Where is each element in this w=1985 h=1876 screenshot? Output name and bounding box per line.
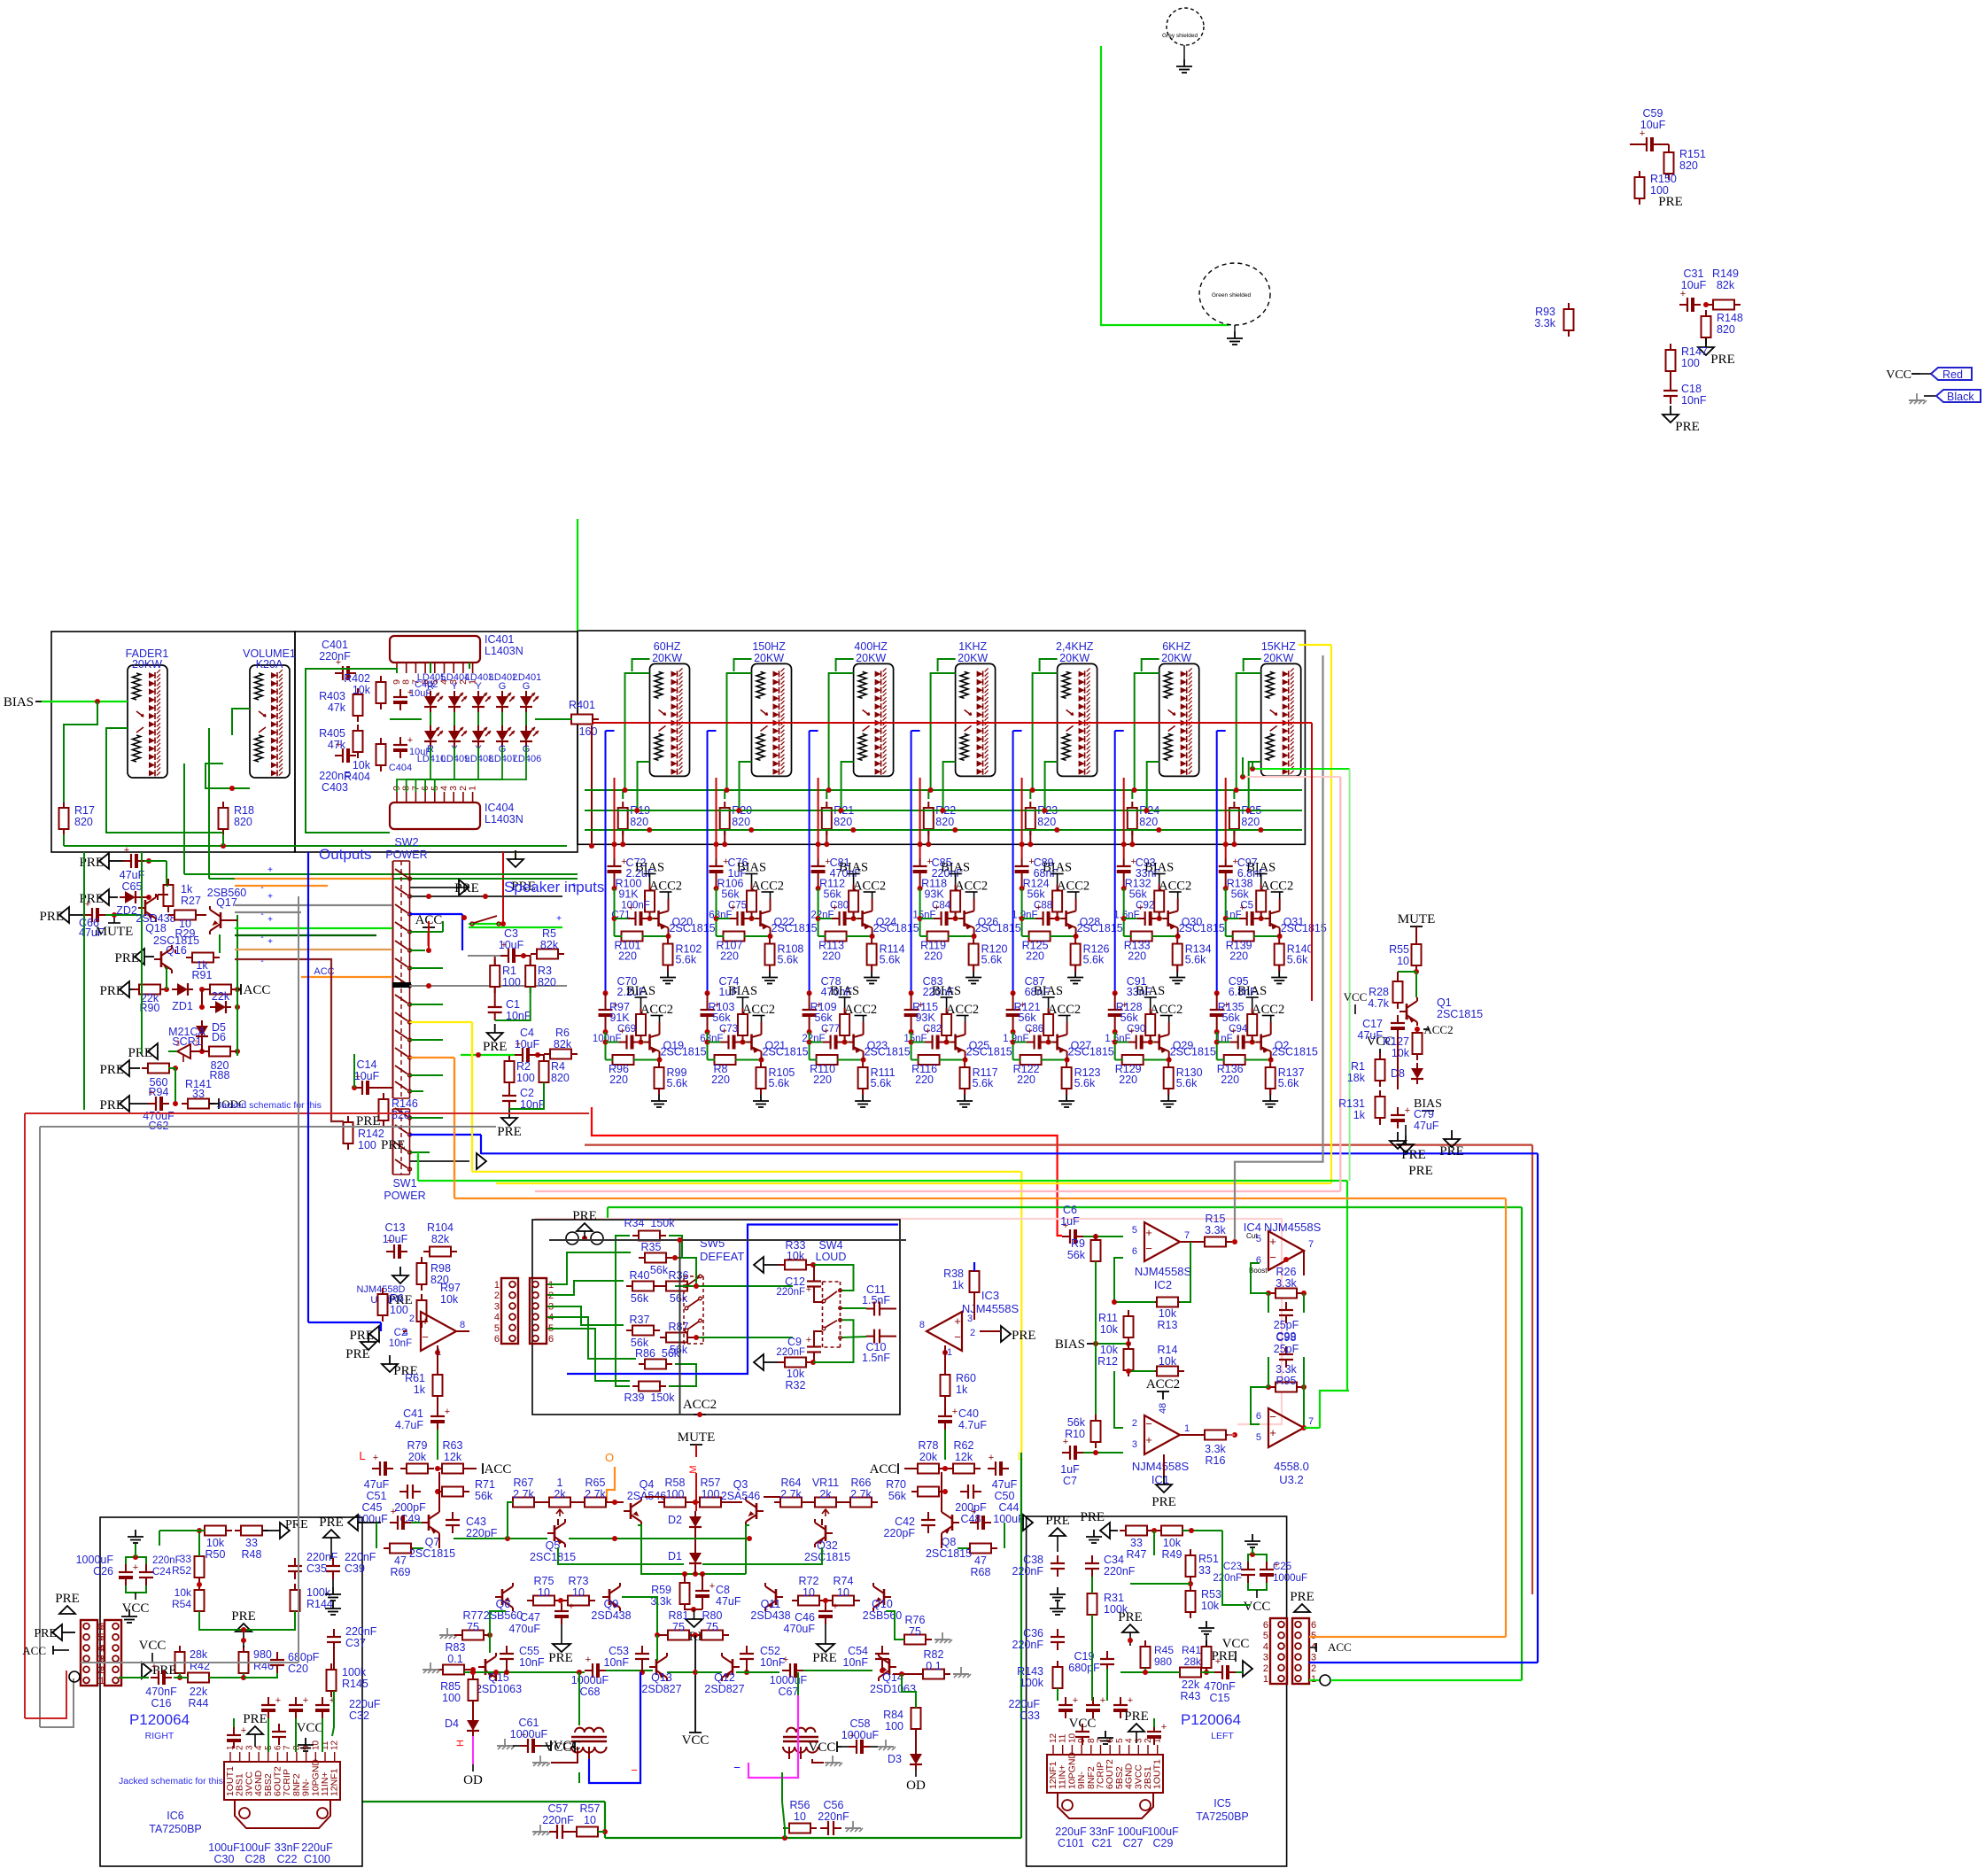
svg-text:C56: C56 — [824, 1799, 844, 1811]
svg-text:220: 220 — [915, 1074, 934, 1086]
svg-text:2SB560: 2SB560 — [863, 1609, 903, 1622]
svg-text:C39: C39 — [345, 1562, 365, 1575]
svg-text:PRE: PRE — [1080, 1510, 1105, 1524]
svg-text:C51: C51 — [367, 1490, 387, 1502]
svg-text:BIAS: BIAS — [1136, 984, 1165, 998]
svg-text:150HZ: 150HZ — [752, 640, 786, 653]
svg-text:C28: C28 — [245, 1853, 266, 1865]
svg-text:−: − — [954, 1330, 961, 1344]
svg-text:5: 5 — [1115, 1738, 1125, 1743]
svg-text:4: 4 — [97, 1643, 103, 1654]
svg-text:+: + — [268, 892, 273, 902]
svg-text:LOUD: LOUD — [816, 1251, 847, 1263]
svg-text:R401: R401 — [569, 699, 595, 711]
svg-text:+: + — [1230, 1027, 1236, 1037]
svg-text:Black: Black — [1947, 391, 1974, 403]
svg-text:C61: C61 — [519, 1717, 539, 1729]
svg-text:R35: R35 — [641, 1241, 662, 1253]
svg-text:220: 220 — [618, 950, 637, 963]
svg-text:IC404: IC404 — [485, 802, 514, 814]
svg-text:5.6k: 5.6k — [778, 954, 799, 966]
svg-text:OD: OD — [906, 1779, 926, 1793]
svg-text:C65: C65 — [122, 880, 143, 893]
svg-text:R36: R36 — [669, 1269, 689, 1282]
svg-text:220: 220 — [1128, 950, 1146, 963]
svg-text:R27: R27 — [181, 895, 201, 907]
svg-text:220: 220 — [1119, 1074, 1137, 1086]
svg-text:1: 1 — [468, 786, 478, 791]
svg-text:10k: 10k — [353, 684, 371, 696]
svg-text:+: + — [721, 1027, 726, 1037]
svg-text:+: + — [1073, 1695, 1078, 1706]
svg-text:220nF: 220nF — [1012, 1565, 1044, 1578]
svg-text:R50: R50 — [205, 1548, 226, 1561]
svg-text:100uF: 100uF — [208, 1841, 240, 1854]
svg-text:75: 75 — [909, 1625, 921, 1638]
svg-text:VCC: VCC — [1069, 1717, 1097, 1731]
svg-text:R91: R91 — [192, 969, 213, 981]
svg-text:+: + — [556, 914, 562, 924]
svg-text:10k: 10k — [1100, 1344, 1119, 1356]
svg-text:Q8: Q8 — [942, 1536, 957, 1548]
svg-text:56k: 56k — [824, 888, 842, 901]
svg-text:820: 820 — [538, 976, 556, 988]
svg-text:PRE: PRE — [1658, 195, 1683, 209]
svg-text:LD401: LD401 — [513, 672, 541, 683]
svg-text:+: + — [971, 1507, 976, 1517]
svg-text:220nF: 220nF — [776, 1347, 805, 1358]
svg-text:820: 820 — [1037, 816, 1056, 828]
svg-text:BIAS: BIAS — [830, 984, 859, 998]
svg-text:10: 10 — [1067, 1733, 1077, 1743]
svg-text:33: 33 — [245, 1537, 258, 1549]
svg-text:R41: R41 — [1182, 1644, 1201, 1656]
svg-text:R62: R62 — [954, 1439, 974, 1452]
svg-text:20KW: 20KW — [132, 658, 162, 671]
svg-text:1uF: 1uF — [1060, 1215, 1080, 1228]
svg-text:C27: C27 — [1123, 1837, 1144, 1849]
svg-text:R13: R13 — [1158, 1319, 1178, 1331]
svg-text:PRE: PRE — [285, 1518, 308, 1531]
svg-text:C401: C401 — [322, 639, 348, 651]
svg-text:D1: D1 — [668, 1550, 682, 1562]
svg-text:R17: R17 — [74, 804, 95, 817]
svg-text:R60: R60 — [956, 1372, 976, 1384]
svg-text:C53: C53 — [609, 1645, 629, 1657]
svg-text:−: − — [1145, 1417, 1152, 1430]
svg-text:PRE: PRE — [1012, 1329, 1036, 1343]
svg-text:10k: 10k — [1159, 1307, 1177, 1320]
svg-text:R1: R1 — [1351, 1060, 1365, 1073]
svg-text:C403: C403 — [322, 781, 348, 794]
svg-text:PRE: PRE — [812, 1651, 837, 1665]
svg-text:PRE: PRE — [1439, 1144, 1464, 1159]
svg-text:R69: R69 — [391, 1566, 411, 1578]
svg-text:C7: C7 — [1063, 1475, 1077, 1487]
svg-text:R52: R52 — [172, 1564, 191, 1577]
svg-text:D6: D6 — [212, 1031, 226, 1043]
svg-text:+: + — [1137, 903, 1143, 913]
svg-text:R1: R1 — [502, 965, 516, 977]
svg-text:Q7: Q7 — [425, 1536, 440, 1548]
svg-text:+: + — [823, 1027, 828, 1037]
svg-text:-: - — [260, 910, 263, 919]
svg-text:C44: C44 — [999, 1501, 1020, 1514]
svg-text:+: + — [934, 903, 939, 913]
svg-text:47: 47 — [974, 1554, 987, 1567]
svg-text:C68: C68 — [580, 1686, 601, 1698]
svg-text:820: 820 — [392, 1109, 410, 1121]
svg-text:2: 2 — [970, 1328, 975, 1338]
svg-text:7: 7 — [1308, 1239, 1314, 1250]
svg-text:20KW: 20KW — [652, 652, 682, 664]
svg-text:220pF: 220pF — [466, 1527, 498, 1539]
svg-text:−: − — [1145, 1242, 1152, 1255]
svg-text:820: 820 — [732, 816, 750, 828]
svg-text:PRE: PRE — [1408, 1164, 1433, 1178]
svg-text:10uF: 10uF — [1681, 279, 1707, 291]
svg-text:−: − — [1269, 1251, 1276, 1264]
svg-text:C16: C16 — [151, 1697, 172, 1709]
svg-text:12: 12 — [330, 1740, 340, 1750]
svg-text:100: 100 — [516, 1072, 535, 1084]
svg-text:56k: 56k — [888, 1490, 907, 1502]
svg-text:100: 100 — [702, 1488, 720, 1500]
svg-text:C404: C404 — [389, 763, 412, 773]
svg-text:PRE: PRE — [79, 856, 104, 870]
svg-text:TA7250BP: TA7250BP — [149, 1823, 202, 1835]
svg-text:C46: C46 — [795, 1611, 815, 1624]
svg-text:ACC: ACC — [244, 983, 271, 997]
svg-text:2SD827: 2SD827 — [641, 1683, 681, 1695]
svg-text:R95: R95 — [1276, 1375, 1297, 1387]
svg-text:6: 6 — [548, 1334, 554, 1345]
svg-text:Q11: Q11 — [761, 1598, 781, 1610]
svg-text:R51: R51 — [1198, 1553, 1219, 1565]
svg-text:MUTE: MUTE — [96, 925, 134, 939]
svg-text:20KW: 20KW — [856, 652, 886, 664]
svg-text:PRE: PRE — [349, 1329, 374, 1343]
svg-text:R44: R44 — [189, 1697, 209, 1709]
svg-text:1: 1 — [494, 1280, 500, 1291]
svg-text:NJM4558S: NJM4558S — [1264, 1221, 1322, 1234]
svg-text:47k: 47k — [328, 739, 346, 751]
svg-text:R12: R12 — [1097, 1355, 1118, 1368]
svg-text:5: 5 — [1256, 1432, 1261, 1443]
svg-text:2SD438: 2SD438 — [591, 1609, 631, 1622]
svg-text:10k: 10k — [1159, 1355, 1177, 1368]
svg-text:220nF: 220nF — [345, 1551, 376, 1563]
svg-text:220: 220 — [1017, 1074, 1035, 1086]
svg-text:220uF: 220uF — [1009, 1698, 1041, 1710]
svg-text:R97: R97 — [440, 1282, 461, 1294]
svg-text:+: + — [149, 1088, 154, 1098]
svg-text:VCC: VCC — [682, 1733, 709, 1748]
svg-text:56k: 56k — [1231, 888, 1250, 901]
svg-text:M: M — [688, 1465, 699, 1473]
svg-text:POWER: POWER — [384, 1190, 425, 1202]
svg-text:R104: R104 — [427, 1221, 454, 1234]
svg-text:220: 220 — [822, 950, 841, 963]
svg-text:Red: Red — [1942, 368, 1963, 381]
svg-text:+: + — [1405, 1013, 1410, 1024]
svg-text:−: − — [733, 1761, 740, 1774]
svg-text:BIAS: BIAS — [1144, 861, 1174, 875]
svg-text:2: 2 — [1144, 1738, 1153, 1743]
svg-text:R66: R66 — [851, 1477, 872, 1489]
svg-text:10nF: 10nF — [389, 1338, 412, 1349]
svg-text:2: 2 — [236, 1745, 245, 1750]
svg-text:PRE: PRE — [548, 1651, 573, 1665]
svg-text:R31: R31 — [1104, 1592, 1124, 1604]
svg-text:ACC2: ACC2 — [1146, 1377, 1180, 1391]
svg-text:+: + — [1100, 1695, 1105, 1706]
svg-text:C38: C38 — [1023, 1554, 1043, 1566]
svg-text:R88: R88 — [210, 1069, 230, 1081]
svg-text:BIAS: BIAS — [1246, 861, 1276, 875]
svg-text:+: + — [1128, 1027, 1134, 1037]
svg-text:R59: R59 — [651, 1584, 671, 1596]
svg-text:PRE: PRE — [381, 1138, 406, 1152]
svg-text:C35: C35 — [306, 1562, 327, 1575]
svg-text:ACC: ACC — [485, 1462, 512, 1477]
svg-text:+: + — [1063, 1437, 1068, 1447]
svg-text:R47: R47 — [1127, 1548, 1147, 1561]
svg-text:91K: 91K — [618, 888, 639, 901]
svg-text:PRE: PRE — [1045, 1514, 1070, 1528]
svg-text:8: 8 — [292, 1745, 302, 1750]
svg-text:R45: R45 — [1154, 1644, 1174, 1656]
svg-text:6: 6 — [1256, 1255, 1261, 1266]
svg-text:11: 11 — [1058, 1733, 1068, 1743]
svg-text:33: 33 — [180, 1553, 192, 1565]
svg-text:VCC: VCC — [139, 1639, 167, 1653]
svg-text:7: 7 — [1184, 1230, 1190, 1241]
svg-text:L1403N: L1403N — [485, 813, 523, 826]
svg-text:+: + — [422, 1314, 429, 1328]
svg-text:C1: C1 — [506, 998, 520, 1011]
svg-text:ACC: ACC — [22, 1644, 46, 1657]
svg-text:+: + — [954, 1314, 961, 1328]
svg-text:100: 100 — [358, 1139, 376, 1151]
svg-text:2: 2 — [1132, 1418, 1137, 1429]
svg-text:10uF: 10uF — [383, 1233, 408, 1245]
svg-text:5: 5 — [494, 1323, 500, 1334]
svg-text:10k: 10k — [174, 1586, 192, 1599]
svg-text:5.6k: 5.6k — [871, 1077, 892, 1089]
svg-text:220nF: 220nF — [1104, 1565, 1136, 1578]
svg-text:SW4: SW4 — [818, 1239, 842, 1252]
svg-text:BIAS: BIAS — [635, 861, 664, 875]
svg-text:VCC: VCC — [297, 1721, 324, 1735]
svg-text:D2: D2 — [668, 1514, 682, 1526]
svg-text:10nF: 10nF — [519, 1656, 545, 1669]
svg-text:Speaker inputs: Speaker inputs — [504, 879, 604, 895]
svg-text:PRE: PRE — [55, 1592, 80, 1606]
svg-text:1KHZ: 1KHZ — [958, 640, 987, 653]
svg-text:VCC: VCC — [1886, 368, 1911, 382]
svg-text:ACC2: ACC2 — [683, 1398, 717, 1412]
svg-text:R72: R72 — [799, 1575, 819, 1587]
svg-text:R76: R76 — [905, 1614, 926, 1626]
svg-text:R68: R68 — [971, 1566, 991, 1578]
svg-text:5.6k: 5.6k — [1083, 954, 1105, 966]
svg-text:2SC1815: 2SC1815 — [772, 922, 818, 934]
svg-text:1000uF: 1000uF — [1273, 1573, 1307, 1584]
svg-text:1: 1 — [1184, 1423, 1190, 1434]
svg-text:R18: R18 — [234, 804, 254, 817]
svg-text:K20A: K20A — [256, 658, 283, 671]
svg-text:D4: D4 — [445, 1717, 459, 1730]
svg-text:ACC2: ACC2 — [1423, 1023, 1453, 1036]
svg-text:ACC: ACC — [870, 1462, 897, 1477]
svg-text:POWER: POWER — [385, 849, 427, 861]
svg-text:PRE: PRE — [1211, 1649, 1236, 1663]
svg-text:SW2: SW2 — [394, 836, 418, 849]
svg-text:R86 56k: R86 56k — [635, 1347, 680, 1360]
svg-text:7: 7 — [1097, 1738, 1106, 1743]
svg-text:+: + — [1027, 1027, 1032, 1037]
svg-text:R127: R127 — [1383, 1035, 1409, 1048]
svg-text:3: 3 — [1263, 1653, 1268, 1663]
svg-text:5.6k: 5.6k — [973, 1077, 994, 1089]
svg-text:PRE: PRE — [497, 1125, 522, 1139]
svg-text:1: 1 — [1153, 1738, 1163, 1743]
svg-text:56k: 56k — [631, 1292, 649, 1305]
svg-text:1k: 1k — [181, 883, 193, 895]
svg-text:100: 100 — [502, 976, 521, 988]
svg-text:C15: C15 — [1210, 1692, 1230, 1704]
svg-text:5.6k: 5.6k — [1074, 1077, 1096, 1089]
svg-text:100uF: 100uF — [993, 1513, 1025, 1525]
svg-text:20k: 20k — [408, 1451, 427, 1463]
svg-text:IC4: IC4 — [1244, 1221, 1261, 1234]
svg-text:R70: R70 — [886, 1478, 906, 1491]
svg-text:R34 150k: R34 150k — [624, 1217, 676, 1229]
svg-text:10k: 10k — [1201, 1600, 1220, 1612]
svg-text:1.5nF: 1.5nF — [862, 1352, 890, 1364]
svg-text:U3.2: U3.2 — [1279, 1473, 1303, 1486]
svg-text:R403: R403 — [319, 690, 345, 702]
svg-text:2SC1815: 2SC1815 — [966, 1046, 1012, 1058]
svg-text:8: 8 — [919, 1320, 925, 1330]
svg-text:C30: C30 — [214, 1853, 235, 1865]
svg-text:IC401: IC401 — [485, 633, 514, 646]
svg-text:C36: C36 — [1023, 1627, 1043, 1640]
svg-text:R56: R56 — [790, 1799, 810, 1811]
svg-text:C21: C21 — [1092, 1837, 1113, 1849]
svg-text:3: 3 — [1311, 1653, 1316, 1663]
svg-text:2SD1063: 2SD1063 — [870, 1683, 916, 1695]
svg-text:220uF: 220uF — [301, 1841, 333, 1854]
svg-text:220nF: 220nF — [319, 650, 351, 663]
svg-text:R32: R32 — [786, 1379, 806, 1391]
svg-text:BIAS: BIAS — [626, 984, 655, 998]
svg-text:C45: C45 — [362, 1501, 383, 1514]
svg-text:2: 2 — [409, 1314, 415, 1324]
svg-text:C18: C18 — [1681, 383, 1702, 395]
svg-text:C101: C101 — [1058, 1837, 1084, 1849]
svg-text:+: + — [1269, 1426, 1276, 1439]
svg-text:+: + — [1035, 903, 1041, 913]
svg-text:10k: 10k — [440, 1293, 459, 1306]
svg-text:100k: 100k — [1020, 1677, 1044, 1689]
svg-text:47k: 47k — [328, 702, 346, 714]
svg-text:160: 160 — [579, 725, 598, 738]
svg-text:2SC1815: 2SC1815 — [1437, 1008, 1483, 1020]
svg-text:BIAS: BIAS — [1237, 984, 1267, 998]
svg-text:820: 820 — [74, 816, 93, 828]
svg-text:220: 220 — [609, 1074, 628, 1086]
svg-text:1uF: 1uF — [1060, 1463, 1080, 1476]
svg-text:2SC1815: 2SC1815 — [804, 1551, 850, 1563]
svg-text:10: 10 — [837, 1586, 849, 1599]
svg-text:OD: OD — [463, 1773, 483, 1787]
svg-text:10nF: 10nF — [604, 1656, 630, 1669]
svg-text:C42: C42 — [895, 1516, 915, 1528]
svg-text:100: 100 — [390, 1304, 408, 1316]
svg-text:+: + — [925, 1027, 930, 1037]
svg-text:2SC1815: 2SC1815 — [530, 1551, 576, 1563]
svg-text:R39 150k: R39 150k — [624, 1391, 676, 1404]
svg-text:+: + — [133, 1562, 138, 1573]
svg-text:R75: R75 — [534, 1575, 554, 1587]
svg-text:+: + — [989, 1453, 994, 1463]
svg-text:5: 5 — [1132, 1225, 1137, 1236]
svg-text:33: 33 — [1130, 1537, 1143, 1549]
svg-text:C14: C14 — [357, 1058, 377, 1071]
svg-text:DEFEAT: DEFEAT — [700, 1250, 744, 1263]
svg-text:8: 8 — [1087, 1738, 1097, 1743]
svg-text:2SC1815: 2SC1815 — [926, 1547, 972, 1560]
svg-text:PRE: PRE — [79, 892, 104, 906]
svg-text:-: - — [260, 957, 263, 966]
svg-text:+: + — [445, 1407, 450, 1417]
svg-text:BIAS: BIAS — [941, 861, 970, 875]
svg-text:R67: R67 — [514, 1477, 534, 1489]
svg-text:820: 820 — [630, 816, 648, 828]
svg-text:1000uF: 1000uF — [841, 1729, 880, 1741]
svg-text:25pF: 25pF — [1274, 1319, 1299, 1331]
svg-text:-: - — [260, 933, 263, 942]
svg-text:L: L — [359, 1449, 365, 1462]
svg-text:820: 820 — [935, 816, 954, 828]
svg-text:PRE: PRE — [319, 1516, 344, 1530]
svg-text:10k: 10k — [787, 1368, 805, 1380]
svg-text:+: + — [628, 903, 633, 913]
svg-text:20KW: 20KW — [958, 652, 988, 664]
svg-text:100: 100 — [666, 1488, 685, 1500]
svg-text:22k: 22k — [1182, 1678, 1200, 1691]
svg-text:22k: 22k — [212, 990, 230, 1003]
svg-text:91K: 91K — [609, 1012, 630, 1024]
svg-text:C37: C37 — [345, 1637, 366, 1649]
svg-text:+: + — [391, 1507, 396, 1517]
svg-text:R48: R48 — [242, 1548, 262, 1561]
svg-text:IC2: IC2 — [1154, 1278, 1172, 1291]
svg-text:470uF: 470uF — [509, 1623, 541, 1635]
svg-text:4558.0: 4558.0 — [1274, 1460, 1309, 1473]
svg-text:1: 1 — [1263, 1674, 1268, 1685]
svg-text:2: 2 — [194, 1039, 198, 1048]
svg-text:BIAS: BIAS — [737, 861, 766, 875]
svg-text:MUTE: MUTE — [1398, 912, 1436, 926]
svg-text:220nF: 220nF — [776, 1287, 805, 1298]
svg-text:+: + — [1145, 1433, 1152, 1446]
svg-text:10k: 10k — [353, 759, 371, 771]
svg-text:820: 820 — [1717, 323, 1735, 336]
svg-text:47: 47 — [394, 1554, 407, 1567]
